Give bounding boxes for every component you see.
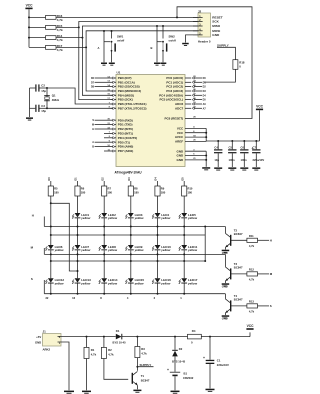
junction col130.8 rail254.4 <box>130 253 132 255</box>
ground SW2 left <box>154 63 160 66</box>
junction col50.8 rail254.4 <box>50 253 52 255</box>
capacitor C3 <box>35 105 39 112</box>
wire SUPPLY tag <box>137 366 153 368</box>
junction VCC bus R15 <box>28 26 30 28</box>
wire rail S <box>44 293 225 295</box>
junction SUPPLY bottom <box>136 366 138 368</box>
resistor R15 <box>46 26 57 30</box>
contact SW1 upper <box>111 41 113 43</box>
ground C7 <box>252 167 260 170</box>
wire rail H to T2 collector <box>224 227 226 234</box>
svg-text:PD0 (RXD): PD0 (RXD) <box>118 118 133 122</box>
resistor R4 <box>188 334 202 339</box>
wire T3 collector diag <box>225 267 230 271</box>
svg-text:R11: R11 <box>249 234 254 238</box>
svg-text:SUPPLY: SUPPLY <box>217 43 229 47</box>
svg-text:180: 180 <box>81 191 86 195</box>
contact SW2 upper <box>162 41 164 43</box>
svg-text:on/off: on/off <box>117 38 124 42</box>
wire C5 top <box>231 141 233 149</box>
svg-text:4,7k: 4,7k <box>91 352 97 356</box>
junction GND pins a <box>205 155 207 157</box>
wire T3 emitter down <box>224 281 226 283</box>
ground T4 <box>222 315 230 318</box>
wire C6 top <box>243 141 245 149</box>
svg-text:GND: GND <box>177 158 185 162</box>
junction SW1 right <box>111 30 113 32</box>
resistor column 104.2 <box>102 186 107 196</box>
svg-text:15p: 15p <box>41 109 46 113</box>
battery B1 <box>170 372 180 376</box>
wire column 4 segment <box>130 250 132 278</box>
svg-text:C5: C5 <box>229 145 233 149</box>
svg-text:yellow: yellow <box>80 216 91 220</box>
wire SW1 to ground <box>111 51 113 63</box>
pin PC2 (ADC2) stub <box>185 86 191 88</box>
pin PB1 (OC1A) stub <box>111 81 117 83</box>
svg-text:on/off: on/off <box>169 38 176 42</box>
wire tag D1 <box>194 81 202 83</box>
svg-text:A: A <box>98 46 100 50</box>
junction R1 top <box>86 336 88 338</box>
wire pin PD4 (XCK/T0) short stub <box>104 137 111 139</box>
wire C1 bottom <box>209 364 211 388</box>
svg-text:R6: R6 <box>81 186 85 190</box>
wire tag A7 <box>194 107 202 109</box>
ground xtal <box>26 117 33 120</box>
wire GND pins vertical <box>205 151 207 167</box>
resistor R11 <box>247 238 258 242</box>
junction col77.5 rail235.0 <box>77 234 79 236</box>
pin J2-1 stub <box>193 16 203 18</box>
wire VCC pins vertical <box>205 128 207 141</box>
wire tag D7 <box>95 81 111 83</box>
resistor R18 <box>233 60 238 70</box>
wire C4 top <box>217 141 219 149</box>
wire column 3 segment <box>103 250 105 278</box>
svg-text:4,7k: 4,7k <box>57 28 63 32</box>
wire R3 top <box>136 337 138 347</box>
pin arrow PC0 (ADC0) <box>192 77 194 79</box>
capacitor C2 <box>35 84 39 91</box>
wire tag D4 <box>194 94 202 96</box>
pin arrow PC3 (ADC3) <box>192 90 194 92</box>
wire T3 base <box>231 273 247 275</box>
svg-text:BC847: BC847 <box>141 379 150 383</box>
svg-text:yellow: yellow <box>107 281 118 285</box>
pin PD3 (INT1) stub <box>111 132 117 134</box>
svg-text:D1: D1 <box>116 329 120 333</box>
junction link bottom <box>204 260 206 262</box>
wire J2 GND <box>186 35 194 43</box>
wire column 4 segment <box>130 284 132 294</box>
wire column D3 tag stub <box>130 181 132 186</box>
resistor R1 <box>84 347 89 358</box>
junction col50.8 rail293.7 <box>50 293 52 295</box>
svg-text:R13: R13 <box>249 300 254 304</box>
svg-text:B: B <box>151 46 153 50</box>
ground J2 <box>182 43 189 46</box>
wire SW1 between contacts <box>111 42 113 51</box>
pin PB0 (ICP) stub <box>111 77 117 79</box>
wire T4 base <box>231 305 247 307</box>
ground R1 <box>82 391 91 394</box>
junction R2 top <box>103 336 105 338</box>
LED LED3 <box>125 213 144 220</box>
wire tag D3 <box>194 90 202 92</box>
wire rail M to T3 collector <box>224 254 226 267</box>
svg-text:SUPPLY: SUPPLY <box>140 363 152 367</box>
pin arrow PB4 (MISO) <box>113 94 115 96</box>
svg-text:ARK2: ARK2 <box>43 348 51 352</box>
wire column D5 tag stub <box>183 181 185 186</box>
connector J2 header box <box>198 13 211 37</box>
wire T4 collector diag <box>225 299 230 303</box>
wire column 2 segment <box>77 284 79 294</box>
pin arrow PD5 (T1) <box>113 141 115 143</box>
svg-text:R7: R7 <box>108 186 112 190</box>
svg-text:PD2 (INT0): PD2 (INT0) <box>118 127 133 131</box>
LED LED17 <box>179 278 198 285</box>
pin arrow PC1 (ADC1) <box>192 81 194 83</box>
junction rail C5 <box>231 140 233 142</box>
pin arrow ADC6 <box>192 103 194 105</box>
svg-text:BC847: BC847 <box>234 266 243 270</box>
pin J2-3 stub <box>193 25 203 27</box>
pin arrow PB1 (OC1A) <box>113 81 115 83</box>
wire C1 top <box>209 337 211 360</box>
svg-text:BYS 10-45: BYS 10-45 <box>172 360 186 364</box>
ground SW1 right <box>109 63 115 66</box>
svg-text:PD1 (TXD): PD1 (TXD) <box>118 123 133 127</box>
wire SW2 contact link <box>157 41 162 43</box>
transistor T1 base bar <box>132 373 133 384</box>
svg-text:H: H <box>92 128 94 131</box>
svg-text:R9: R9 <box>161 186 165 190</box>
pin AVCC stub <box>185 136 206 138</box>
svg-text:220u/10V: 220u/10V <box>217 363 229 367</box>
wire R15 to SCK vertical <box>56 26 79 28</box>
ground T1 <box>133 390 141 393</box>
pin arrow PD2 (INT0) <box>113 128 115 130</box>
ground SW1 left <box>101 63 107 66</box>
wire rail after R4 <box>201 336 250 338</box>
wire RESET loop to PC6 <box>177 7 252 119</box>
pin arrow PB0 (ICP) <box>113 77 115 79</box>
wire R12 to M <box>258 273 270 275</box>
svg-text:M: M <box>92 124 94 127</box>
junction MOSI net <box>85 46 87 48</box>
pin arrow PD4 (XCK/T0) <box>113 137 115 139</box>
pin VCC stub <box>185 127 206 129</box>
svg-text:Header 5: Header 5 <box>198 39 211 43</box>
pin ADC6 stub <box>185 103 191 105</box>
svg-text:Q1: Q1 <box>52 93 56 97</box>
LED LED15 <box>125 278 144 285</box>
wire column 3 segment <box>103 218 105 245</box>
pin arrow PC2 (ADC2) <box>192 85 194 87</box>
junction col130.8 rail235.0 <box>130 234 132 236</box>
svg-text:S: S <box>270 304 272 308</box>
svg-text:180: 180 <box>54 191 59 195</box>
junction col1 jog top <box>50 202 52 204</box>
junction R3 top <box>136 336 138 338</box>
junction col50.8 rail226.5 <box>50 226 52 228</box>
svg-text:GND: GND <box>222 285 228 289</box>
svg-text:BC847: BC847 <box>234 232 243 236</box>
junction col104.2 rail254.4 <box>103 253 105 255</box>
junction rail C7 <box>255 140 257 142</box>
pin PC5 (ADC5/SCL) stub <box>185 99 191 101</box>
junction C1 top <box>209 336 211 338</box>
wire J1 GND down <box>58 342 70 390</box>
wire R14 to MISO vertical <box>56 37 82 39</box>
arrow T3 emitter <box>225 278 228 281</box>
wire T1 emitter down <box>136 385 138 389</box>
wire SUPPLY to R18 <box>217 47 235 59</box>
svg-text:16: 16 <box>72 296 75 300</box>
wire C6 bottom <box>243 153 245 167</box>
junction col77.5 rail254.4 <box>77 253 79 255</box>
pin PC3 (ADC3) stub <box>185 90 191 92</box>
wire rail to VCC <box>249 332 251 336</box>
svg-text:yellow: yellow <box>80 281 91 285</box>
LED LED4 <box>152 213 171 220</box>
pin PB7 (XTAL2/TOSC2) stub <box>111 107 117 109</box>
svg-text:R2: R2 <box>108 348 112 352</box>
junction col157.5 rail261.0 <box>157 260 159 262</box>
wire SCK net <box>79 22 198 100</box>
wire C7 bottom <box>255 153 257 167</box>
power VCC bottom-right <box>246 324 254 330</box>
pin J2-2 stub <box>193 21 203 23</box>
pin PC6 stub <box>185 118 192 120</box>
svg-text:4,7k: 4,7k <box>57 48 63 52</box>
arrow T1 emitter <box>135 383 138 386</box>
wire column 5 segment <box>157 284 159 294</box>
ground SW2 right <box>160 63 166 66</box>
svg-text:SCK: SCK <box>212 20 219 24</box>
junction col104.2 rail261.0 <box>103 260 105 262</box>
pin arrow PD7 (AIN1) <box>113 150 115 152</box>
junction col104.2 rail235.0 <box>103 234 105 236</box>
svg-text:100n: 100n <box>229 158 235 162</box>
svg-text:4,7k: 4,7k <box>249 278 255 282</box>
junction col77.5 rail261.0 <box>77 260 79 262</box>
wire rail H <box>44 226 225 228</box>
junction col77.5 rail226.5 <box>77 226 79 228</box>
crystal Q1 <box>44 95 50 101</box>
junction xtal top <box>46 87 48 89</box>
arrow T2 emitter <box>225 245 228 248</box>
svg-text:U1: U1 <box>117 70 121 74</box>
LED LED14 <box>99 278 118 285</box>
svg-text:yellow: yellow <box>187 248 198 252</box>
svg-text:yellow: yellow <box>160 281 171 285</box>
wire column 4 segment <box>130 218 132 245</box>
svg-text:R4: R4 <box>192 329 196 333</box>
svg-text:H: H <box>270 238 272 242</box>
wire rail M <box>44 253 225 255</box>
wire T2 emitter down <box>224 247 226 249</box>
wire tag D0 <box>194 77 202 79</box>
svg-text:C4: C4 <box>214 145 218 149</box>
wire column 2 segment <box>77 250 79 278</box>
svg-text:180: 180 <box>161 191 166 195</box>
pin arrow PD3 (INT1) <box>113 132 115 134</box>
wire col1 to col2 jog <box>51 203 78 271</box>
pin arrow PC4 (ADC4/SDA) <box>192 94 194 96</box>
svg-text:4,7k: 4,7k <box>249 310 255 314</box>
svg-text:J1: J1 <box>43 329 47 333</box>
wire pin PD7 (AIN1) short stub <box>104 150 111 152</box>
op-amp U1 ATmega48 body <box>116 75 185 167</box>
capacitor C5 <box>228 149 236 153</box>
LED LED10 <box>152 245 171 252</box>
junction link top <box>204 226 206 228</box>
junction D2 top <box>174 336 176 338</box>
pin arrow PD0 (RXD) <box>113 119 115 121</box>
junction col184.2 rail226.5 <box>183 226 185 228</box>
svg-text:PC6 (RESET): PC6 (RESET) <box>165 117 184 121</box>
svg-text:PB2 (SS/OC1B): PB2 (SS/OC1B) <box>118 85 140 89</box>
wire VCC to R16 <box>29 16 46 18</box>
svg-text:H: H <box>32 214 34 218</box>
junction col157.5 rail293.7 <box>157 293 159 295</box>
wire tag M <box>95 124 111 126</box>
svg-text:A: A <box>92 141 94 144</box>
resistor R16 <box>46 16 57 20</box>
svg-text:yellow: yellow <box>107 248 118 252</box>
pin arrow PB7 (XTAL2/TOSC2) <box>113 107 115 109</box>
svg-text:180: 180 <box>108 191 113 195</box>
svg-text:4,7k: 4,7k <box>57 38 63 42</box>
wire column 4 segment <box>130 196 132 213</box>
svg-text:R1: R1 <box>91 348 95 352</box>
wire R2 to T1 base <box>104 359 128 380</box>
svg-text:PD3 (INT1): PD3 (INT1) <box>118 132 133 136</box>
wire R11 to H <box>258 239 270 241</box>
wire tag M <box>43 248 45 254</box>
junction SW2 left <box>156 25 158 27</box>
junction VCC pins b <box>205 136 207 138</box>
svg-text:PD6 (AIN0): PD6 (AIN0) <box>118 145 134 149</box>
pin arrow ADC7 <box>192 107 194 109</box>
LED LED13 <box>72 278 91 285</box>
svg-text:C1: C1 <box>217 358 221 362</box>
ground C6 <box>240 167 248 170</box>
wire column 5 segment <box>157 218 159 245</box>
resistor column 130.8 <box>128 186 133 196</box>
pin arrow PB2 (SS/OC1B) <box>113 85 115 87</box>
pin arrow PC5 (ADC5/SCL) <box>192 98 194 100</box>
resistor R12 <box>247 272 258 276</box>
svg-text:B1: B1 <box>184 372 188 376</box>
wire column 5 segment <box>157 196 159 213</box>
pin PB3 (MOSI/OC2) stub <box>111 90 117 92</box>
pin PC4 (ADC4/SDA) stub <box>185 94 191 96</box>
junction GND pins b <box>205 159 207 161</box>
pin arrow PB5 (SCK) <box>113 98 115 100</box>
svg-text:100n: 100n <box>241 158 247 162</box>
svg-text:VCC: VCC <box>256 105 264 109</box>
junction col184.2 rail235.0 <box>183 234 185 236</box>
svg-text:PC5 (ADC5/SCL): PC5 (ADC5/SCL) <box>160 98 184 102</box>
resistor R13 <box>247 304 258 308</box>
wire tag D2 <box>194 86 202 88</box>
wire C4 bottom <box>217 153 219 167</box>
actuator SW2 <box>166 43 168 51</box>
wire SW1 contact link <box>104 41 110 43</box>
wire rail mid1 <box>51 234 205 236</box>
wire column 6 segment <box>183 218 185 245</box>
junction col130.8 rail226.5 <box>130 226 132 228</box>
diode D1 <box>116 334 123 340</box>
wire T3 emitter diag <box>225 277 230 281</box>
ground C1 <box>206 389 215 392</box>
wire column 3 segment <box>103 196 105 213</box>
wire VCC to R17 <box>29 46 46 48</box>
pin PD1 (TXD) stub <box>111 124 117 126</box>
resistor column 157.5 <box>155 186 160 196</box>
junction col130.8 rail293.7 <box>130 293 132 295</box>
wire tag H <box>95 128 111 130</box>
svg-text:R8: R8 <box>134 186 138 190</box>
wire column 1 segment <box>50 284 52 294</box>
wire column D2 tag stub <box>103 181 105 186</box>
junction col50.8 rail261.0 <box>50 260 52 262</box>
svg-text:BC847: BC847 <box>234 298 243 302</box>
pin PB6 (XTAL1/TOSC1) stub <box>111 103 117 105</box>
svg-text:4MHz: 4MHz <box>52 98 60 102</box>
wire VCC to R14 <box>29 37 46 39</box>
wire tag D6 <box>95 77 111 79</box>
svg-text:R5: R5 <box>54 186 58 190</box>
svg-text:R3: R3 <box>141 347 145 351</box>
capacitor C7 <box>252 149 260 153</box>
pin arrow PD1 (TXD) <box>113 123 115 125</box>
junction col157.5 rail254.4 <box>157 253 159 255</box>
svg-text:+: + <box>167 368 169 372</box>
pin PC1 (ADC1) stub <box>185 81 191 83</box>
svg-text:yellow: yellow <box>80 248 91 252</box>
svg-text:GND: GND <box>222 251 228 255</box>
pin GND stub <box>185 150 206 152</box>
wire tag D5 <box>194 99 202 101</box>
wire rail S to T4 collector <box>224 294 226 299</box>
junction col130.8 rail261.0 <box>130 260 132 262</box>
LED LED2 <box>99 213 118 220</box>
wire T1 emitter diag <box>133 382 138 386</box>
wire rail mid2 <box>51 260 205 262</box>
wire xtal to PB7 <box>47 107 116 109</box>
svg-text:32: 32 <box>45 296 48 300</box>
pin AREF stub <box>185 140 206 142</box>
svg-text:220u/10V: 220u/10V <box>253 158 265 162</box>
ground T3 <box>222 283 230 286</box>
resistor R3 <box>135 347 140 358</box>
svg-text:yellow: yellow <box>160 248 171 252</box>
junction col157.5 rail235.0 <box>157 234 159 236</box>
wire R2 top <box>103 337 105 348</box>
wire column 2 segment <box>77 218 79 245</box>
wire tag S <box>43 280 45 294</box>
LED LED7 <box>72 245 91 252</box>
svg-text:PD7 (AIN1): PD7 (AIN1) <box>118 149 134 153</box>
svg-text:GND: GND <box>177 154 185 158</box>
svg-text:yellow: yellow <box>187 216 198 220</box>
wire column 6 segment <box>183 284 185 294</box>
